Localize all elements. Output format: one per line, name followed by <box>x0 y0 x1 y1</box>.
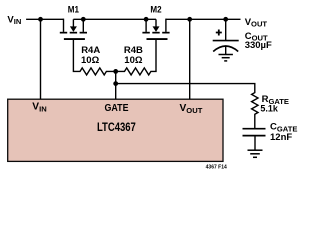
svg-text:12nF: 12nF <box>270 132 292 143</box>
svg-text:LTC4367: LTC4367 <box>97 120 136 134</box>
svg-text:5.1k: 5.1k <box>260 104 279 114</box>
svg-text:10Ω: 10Ω <box>81 55 100 66</box>
svg-text:M1: M1 <box>68 4 80 15</box>
svg-text:4367 F14: 4367 F14 <box>206 165 227 171</box>
svg-text:330µF: 330µF <box>245 40 272 51</box>
svg-text:GATE: GATE <box>105 103 129 114</box>
svg-text:M2: M2 <box>150 4 161 15</box>
svg-text:VOUT: VOUT <box>245 17 268 29</box>
svg-text:VIN: VIN <box>7 14 21 26</box>
svg-text:10Ω: 10Ω <box>124 55 143 66</box>
